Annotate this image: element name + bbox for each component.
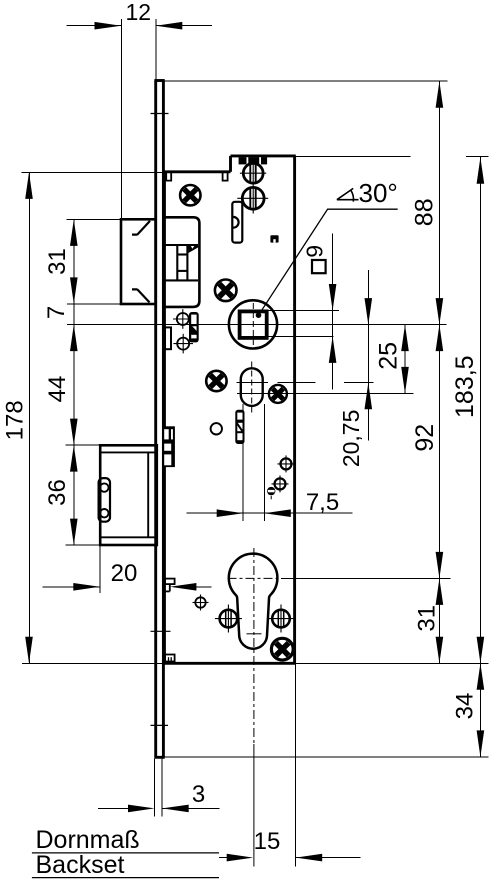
top slotted screw 2 — [237, 158, 268, 214]
svg-text:30°: 30° — [359, 178, 398, 208]
svg-text:31: 31 — [44, 248, 71, 275]
small crosshair screw near cylinder — [193, 595, 209, 611]
phillips screw left of obround — [206, 371, 226, 391]
square-section symbol — [312, 260, 326, 273]
obround slot — [241, 368, 263, 406]
left column ext lines — [67, 218, 124, 220]
dim 44 arrows — [70, 325, 78, 352]
latch bevel marks — [132, 221, 150, 303]
front bracket small — [165, 327, 171, 349]
lock case outline — [163, 156, 295, 663]
dim 88 arrows — [436, 81, 444, 108]
staple bottom — [165, 655, 175, 662]
phillips screw upper-left — [180, 185, 200, 205]
svg-text:44: 44 — [44, 376, 71, 403]
svg-text:88: 88 — [411, 198, 439, 226]
dim 12 lines — [67, 25, 122, 27]
square follower — [229, 300, 277, 348]
top slotted screw 1 — [240, 163, 266, 183]
svg-text:3: 3 — [192, 781, 205, 808]
transmission bar mid — [189, 312, 199, 342]
svg-text:Backset: Backset — [36, 851, 125, 879]
svg-text:7,5: 7,5 — [306, 489, 339, 516]
phillips screw bottom right — [271, 638, 293, 660]
cylinder center ext — [281, 577, 451, 579]
small circle — [211, 423, 222, 434]
angle symbol — [337, 188, 359, 201]
faceplate screw hole ticks — [151, 114, 171, 726]
dim 9 arrows — [329, 284, 337, 311]
svg-text:183,5: 183,5 — [451, 355, 479, 418]
178 — [22, 171, 165, 173]
svg-text:25: 25 — [375, 342, 403, 370]
euro cylinder — [229, 554, 278, 649]
dim 183,5 arrows — [477, 157, 485, 184]
spring crosshair screw lower — [173, 334, 193, 354]
dim 34 arrows — [477, 663, 485, 690]
front bracket guide — [164, 426, 175, 467]
svg-text:7: 7 — [43, 306, 70, 319]
latch bolt body — [165, 217, 200, 307]
case front edge — [164, 172, 166, 664]
dim 20,75 arrows — [365, 298, 373, 325]
183.5 / 34 — [296, 155, 411, 157]
cylinder centerlines — [253, 548, 255, 744]
svg-text:92: 92 — [411, 424, 439, 452]
bottom table — [32, 852, 219, 854]
dim 7,5 arrows — [217, 509, 244, 517]
svg-text:20: 20 — [111, 560, 138, 587]
deadbolt — [100, 445, 157, 545]
right 88/92/31 line — [165, 80, 448, 82]
black disc with slot — [267, 487, 275, 495]
stop square black — [270, 235, 278, 242]
dim 20 arrows — [73, 583, 100, 591]
crosshair screw A — [278, 455, 295, 472]
svg-text:31: 31 — [414, 605, 441, 632]
dim 31 right arrows — [436, 578, 444, 605]
case top tabs — [166, 172, 227, 181]
svg-text:178: 178 — [2, 400, 29, 440]
dim 92 arrows — [436, 325, 444, 352]
phillips screw mid — [215, 280, 237, 302]
lever bar upper — [232, 202, 242, 243]
dim 25 arrows — [401, 325, 409, 352]
latch body internals — [166, 245, 199, 280]
dim 3 arrows — [128, 805, 155, 813]
dim 178 arrows — [25, 172, 33, 199]
15 — [219, 857, 240, 859]
7,5 — [187, 512, 353, 514]
9 — [269, 310, 340, 312]
dim 12 arrows — [95, 22, 122, 30]
latch bolt head — [121, 219, 156, 304]
lever bar lower — [235, 410, 244, 444]
svg-text:Dornmaß: Dornmaß — [36, 826, 140, 854]
svg-text:15: 15 — [254, 828, 281, 855]
25 — [237, 392, 414, 394]
svg-text:20,75: 20,75 — [338, 410, 364, 468]
cylinder flank screw right — [268, 605, 295, 633]
20,75 — [237, 382, 269, 384]
rivet plate on deadbolt — [99, 478, 110, 522]
phillips screw right of obround — [269, 385, 287, 403]
faceplate — [154, 81, 164, 758]
svg-text:9: 9 — [302, 245, 328, 258]
svg-text:36: 36 — [44, 479, 71, 506]
top screw cap — [239, 157, 268, 164]
30 deg leader — [259, 209, 398, 315]
dim 31 left arrows — [70, 219, 78, 246]
3 — [98, 807, 130, 809]
svg-text:34: 34 — [452, 693, 479, 720]
dim 15 arrows — [227, 854, 254, 862]
dim 36 arrows — [70, 445, 78, 472]
20 — [42, 586, 99, 588]
cylinder flank screw left — [215, 605, 242, 633]
staple top — [165, 579, 175, 592]
crosshair screw B — [272, 475, 289, 492]
svg-text:12: 12 — [126, 0, 152, 25]
spring crosshair screw upper — [173, 309, 193, 329]
